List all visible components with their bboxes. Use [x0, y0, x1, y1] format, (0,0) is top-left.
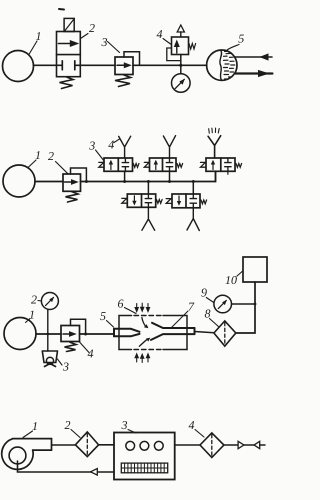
lubricator 5 membrane wavy [220, 50, 222, 80]
wire valve B to bus [169, 171, 171, 181]
valve 3 body (row2 upper A) [104, 158, 133, 171]
label 2 (row1) [81, 21, 96, 39]
wire blower out to filter 2 [52, 444, 76, 446]
node valve D bus [147, 180, 150, 183]
valve A exhaust funnel [119, 136, 131, 158]
compressor 1 (row1) [3, 51, 34, 82]
svg-text:1: 1 [36, 29, 42, 43]
regulator 3 arrow [117, 62, 132, 68]
svg-text:6: 6 [118, 297, 124, 311]
label 5 (row3) [100, 309, 114, 327]
regulator 2 body (row2) [63, 174, 81, 191]
hollow arrow left on return [91, 469, 98, 476]
valve E Z actuator [166, 199, 171, 204]
regulator 3 body [115, 57, 133, 75]
wire out right end [260, 444, 265, 446]
hollow arrow left (quick coupling) [254, 441, 260, 448]
regulator 4 arrow (row3) [63, 331, 77, 337]
svg-text:2: 2 [31, 293, 37, 307]
svg-text:5: 5 [100, 309, 106, 323]
svg-text:4: 4 [88, 347, 94, 361]
label 3 (row4) [121, 418, 137, 433]
wire compressor to valve 2 [34, 64, 57, 66]
relief valve 4 body [172, 37, 189, 55]
valve B arrow up [154, 160, 158, 170]
wire filter 2 to box 3 [99, 444, 114, 446]
label 6 (row3) [118, 297, 137, 314]
wire up to gauge (row3) [47, 310, 49, 335]
label 4 (row2) [108, 138, 120, 152]
wire compressor to regulator (row3) [36, 333, 61, 335]
valve A blocked ports [122, 158, 128, 171]
blower 1 volute [2, 439, 52, 470]
label 1 (row2) [28, 148, 42, 168]
svg-text:7: 7 [188, 300, 195, 314]
lubricator 5 texture dots [224, 51, 235, 79]
regulator 2 arrow (row2) [65, 179, 79, 185]
valve 2 body (row1) [57, 32, 81, 77]
valve 2 arrow (top square) [59, 40, 80, 47]
wire valve A to bus [124, 171, 126, 181]
receiver 10 box [243, 257, 267, 282]
regulator 2 offset square (row2) [71, 168, 87, 182]
wire bus to valve E [192, 182, 194, 195]
label 2 (row2) [48, 149, 68, 174]
node junction row1 [179, 64, 182, 67]
scan speck top [59, 8, 64, 11]
ejector chamber box [119, 316, 187, 350]
valve D spring W [157, 200, 163, 204]
label 1 (row4) [23, 419, 38, 438]
valve B Z actuator [144, 162, 149, 167]
wire gauge 9 to riser [232, 303, 256, 305]
valve 2 blocked ports (bottom square) [57, 61, 81, 70]
wire box 3 to filter 4 [175, 444, 200, 446]
label 3 (row3) [57, 359, 69, 374]
svg-text:2: 2 [48, 149, 54, 163]
svg-text:4: 4 [189, 418, 195, 432]
arrow left on top line [259, 53, 268, 60]
wire lubricator bottom out [235, 72, 272, 74]
wire bus to valve D [147, 182, 149, 195]
regulator 2 spring (row2) [66, 192, 79, 203]
entrained flow arrow lower [139, 338, 150, 347]
svg-text:3: 3 [101, 35, 108, 49]
label 10 (row3) [225, 271, 243, 287]
filter 4 diamond (row4) [200, 433, 224, 458]
valve C atomizer spray [209, 128, 220, 133]
label 2 (row3) [31, 293, 42, 307]
wire regulator to nozzle (row3) [80, 333, 115, 335]
svg-text:5: 5 [238, 32, 244, 46]
wire diffuser to filter 8 [195, 332, 215, 333]
wire lubricator top out [235, 56, 273, 58]
svg-text:3: 3 [121, 418, 128, 432]
svg-text:10: 10 [225, 273, 237, 287]
node valve B bus [168, 180, 171, 183]
node regulator out (row3) [84, 333, 87, 336]
relief valve 4 pilot line [167, 48, 181, 61]
return wire box to blower [18, 461, 115, 472]
valve 2 spring [60, 77, 74, 89]
condensate drain 3 (row3) [42, 351, 57, 367]
pressure gauge (row1) [172, 74, 191, 93]
valve D blocked ports [145, 194, 151, 207]
relief valve 4 exhaust triangle [177, 25, 184, 37]
valve 3 body (row2 upper C) [206, 158, 235, 171]
valve B spring W [177, 164, 183, 168]
valve C exhaust stub [227, 171, 229, 174]
regulator 4 offset square (row3) [71, 319, 86, 334]
label 1 (row3) [26, 308, 36, 323]
label 3 (row2) [88, 139, 103, 161]
regulator 3 offset square [124, 52, 140, 66]
valve C Z actuator [201, 162, 206, 167]
node gauge/drain tee (row3) [46, 333, 49, 336]
valve E arrow down [177, 196, 181, 206]
valve E spring W [201, 200, 207, 204]
label 5 (row1) [227, 32, 245, 51]
node gauge tee (row3) [254, 303, 257, 306]
label 4 (row1) [157, 27, 171, 44]
valve C atomizer funnel [208, 136, 221, 158]
regulator 4 body (row3) [61, 326, 80, 342]
box 3 grill [121, 463, 167, 473]
label 1 (row1) [29, 29, 42, 55]
nozzle 5 [114, 329, 140, 337]
valve 3 body (row2 lower E) [172, 194, 200, 208]
suction arrows bottom [135, 354, 150, 363]
valve D arrow down [132, 196, 136, 206]
valve B exhaust funnel [163, 136, 175, 158]
valve 3 body (row2 upper B) [150, 158, 177, 171]
wire regulator3 to lubricator, through node [133, 64, 207, 66]
svg-text:2: 2 [65, 418, 71, 432]
valve E outlet funnel down [187, 208, 199, 231]
compressor 1 (row3) [4, 318, 36, 350]
valve C arrow up [211, 160, 215, 170]
compressor 1 (row2) [3, 165, 35, 197]
wire filter 8 to riser [236, 282, 255, 333]
svg-text:4: 4 [108, 138, 114, 152]
machine box 3 [114, 433, 175, 480]
lubricator 5 body [207, 50, 237, 80]
wire filter 4 out [224, 444, 238, 446]
filter 8 diamond [214, 321, 236, 346]
valve E blocked ports [190, 194, 196, 208]
node valve A bus [123, 180, 126, 183]
box 3 indicator circles [126, 441, 163, 450]
regulator 3 spring [115, 75, 131, 87]
label 8 (row3) [205, 307, 220, 328]
wire valve2 to regulator 3 [80, 64, 115, 66]
valve C blocked ports [225, 158, 231, 171]
entrained flow arrow upper [142, 318, 149, 329]
label 4 (row3) [80, 342, 94, 361]
svg-text:1: 1 [29, 308, 35, 322]
bus wire (row2) [81, 171, 216, 181]
valve D Z actuator [122, 198, 127, 203]
arrow right on bottom line [258, 70, 270, 77]
svg-text:4: 4 [157, 27, 163, 41]
node regulator out (row2) [85, 180, 88, 183]
valve B blocked ports [166, 158, 172, 171]
valve A spring W [133, 164, 139, 168]
valve C spring W [236, 164, 242, 168]
filter 2 diamond (row4) [75, 432, 98, 457]
suction arrows top (6) [135, 303, 150, 311]
wire bus end up into valve C [215, 171, 217, 181]
valve A Z actuator [99, 162, 104, 167]
wire relief valve down to line [180, 55, 182, 74]
svg-text:3: 3 [88, 139, 95, 153]
label 7 (row3) [171, 300, 195, 329]
relief valve 4 spring W [189, 44, 196, 50]
label 3 (row1) [101, 35, 120, 53]
label 4 (row4) [189, 418, 205, 437]
valve 2 solenoid [64, 18, 74, 31]
valve D outlet funnel down [142, 207, 155, 230]
valve 3 body (row2 lower D) [127, 194, 155, 207]
regulator 4 spring (row3) [65, 342, 77, 351]
wire between couplings [244, 444, 254, 446]
hollow arrow right (quick coupling) [238, 441, 244, 448]
valve A arrow up [109, 160, 113, 170]
relief valve 4 arrow up [174, 40, 180, 54]
diffuser 7 [151, 323, 195, 340]
pressure gauge 9 [214, 295, 232, 313]
node valve E bus [192, 180, 195, 183]
svg-text:2: 2 [89, 21, 95, 35]
blower 1 impeller [9, 447, 26, 464]
svg-text:3: 3 [62, 360, 69, 374]
wire compressor to regulator (row2) [35, 181, 63, 183]
wire down to drain (row3) [47, 334, 49, 351]
label 9 (row3) [201, 286, 214, 303]
pressure gauge 2 (row3) [41, 293, 58, 310]
label 2 (row4) [65, 418, 81, 438]
